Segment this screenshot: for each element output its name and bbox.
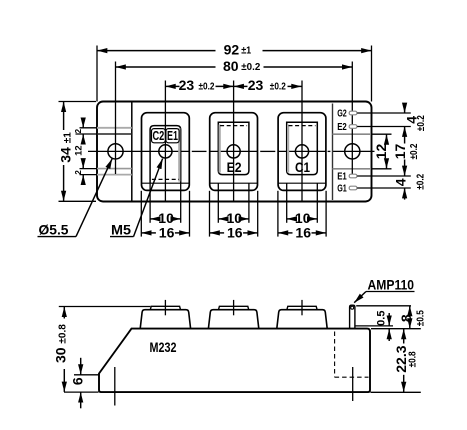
terminal boss 1 (side view) [140,310,190,329]
left hole centerline / extension [115,62,117,175]
right hole centerline / extension [351,62,353,175]
terminal 1 pad shade [178,128,180,182]
svg-text:12: 12 [373,144,389,160]
horizontal centerline [88,150,189,152]
dimension 34 ±1 (overall depth, left) [59,101,97,103]
terminal 1 screw hole [159,145,172,158]
terminal boss 3 (side view) [277,310,327,329]
svg-text:±0.2: ±0.2 [199,81,215,92]
left flange slot line (lower, dark) [97,168,132,170]
terminal 2 pad hidden edge (dashed) [220,125,247,127]
svg-text:22.3: 22.3 [393,345,409,372]
svg-text:16: 16 [159,224,175,240]
terminal 1 contact pad [150,126,181,184]
terminal 1 outer well [142,113,190,191]
left mounting hole centerline (side view) [114,367,116,406]
dimension 92 ±1 (overall width) [96,46,98,102]
boss 1 centerline [164,300,166,315]
dimension 4 ±0.2 (G2-E2 pitch) [404,104,406,113]
label box E1 [166,129,179,143]
separator extension upper [372,133,392,135]
dimension 17 ±0.2 (E2-E1 pitch) [404,127,406,144]
svg-text:80: 80 [223,58,239,74]
svg-text:23: 23 [179,77,195,93]
terminal 3 contact pad [287,122,318,174]
dimension 8 ±0.5 (tab height) [409,306,411,314]
pin G1 [349,186,357,190]
boss 3 centerline [301,300,303,315]
terminal 1 step line [142,182,190,184]
terminal 3 pad hidden edge (dashed) [289,125,316,127]
svg-text:±0.2: ±0.2 [241,62,260,73]
label box C2 [152,129,166,143]
svg-text:8: 8 [398,314,414,322]
svg-text:M5: M5 [111,221,131,237]
svg-text:±0.2: ±0.2 [270,81,286,92]
right end cap separator (upper) [333,133,372,135]
pin G2 [349,111,357,115]
left flange slot line (lower, light) [97,174,132,176]
terminal 1 vertical centerline [164,81,166,202]
svg-text:±0.8: ±0.8 [407,351,418,367]
terminal 2 contact pad [218,122,249,174]
right end cap left edge [332,104,334,201]
dimension 23 ±0.2 (terminal pitch, left) [165,85,179,87]
svg-text:17: 17 [392,144,408,160]
dimension 16 (well width, terminal 1) [140,191,142,237]
svg-text:E1: E1 [337,172,347,183]
svg-text:±1: ±1 [241,46,251,57]
svg-text:16: 16 [227,224,243,240]
svg-text:±0.2: ±0.2 [409,143,420,159]
extension lines right (side view) [356,305,411,307]
terminal 2 outer well [210,113,258,191]
svg-text:Ø5.5: Ø5.5 [39,221,69,237]
svg-text:E1: E1 [167,129,178,143]
svg-text:E2: E2 [337,122,347,133]
pin E1 [349,174,357,178]
separator extension lower [372,168,392,170]
svg-text:0.5: 0.5 [375,311,387,326]
svg-text:E2: E2 [227,159,242,175]
svg-text:6: 6 [69,377,85,385]
dimension 10 (pad width, terminal 1) [149,184,151,223]
hidden internal cavity (dashed) [334,332,336,378]
right end cap separator (lower) [333,168,372,170]
module body outline (side view) [99,329,370,393]
terminal 3 pad shade [287,125,289,173]
svg-text:2: 2 [74,170,83,175]
right mounting hole centerline (side view) [352,367,354,401]
tab hole [351,306,354,309]
dimension 23 ±0.2 (terminal pitch, right) [234,85,248,87]
svg-text:C1: C1 [295,159,310,175]
dimension 16 (well width, terminal 3) [277,191,279,237]
terminal 3 screw hole [295,145,308,158]
terminal 2 pad shade [219,125,221,173]
AMP110 tab pin (side view) [350,305,355,328]
right mounting hole [345,144,360,159]
svg-text:C2: C2 [153,129,165,143]
dimension chain 2 / 12 / 2 (flange slots) [80,127,97,129]
svg-text:2: 2 [74,128,83,133]
dimension 30 ±0.8 (overall height) [59,306,151,308]
svg-text:M232: M232 [150,339,177,355]
terminal 3 vertical centerline [301,81,303,202]
boss 2 centerline [233,300,235,315]
pin leader lines (right) [357,112,411,114]
left mounting hole [108,144,123,159]
svg-text:16: 16 [295,224,311,240]
svg-text:12: 12 [73,145,84,156]
svg-text:23: 23 [248,77,264,93]
terminal 2 vertical centerline [233,81,235,202]
module body outline (top view) [97,102,372,202]
terminal cap 3 (side view) [287,306,317,309]
svg-text:4: 4 [393,178,409,186]
dimension 0.5 (tab pedestal) [388,313,390,326]
dimension 12 (separator spacing) [386,134,388,144]
left flange slot line (upper, light) [97,127,132,129]
dimension 80 ±0.2 (hole spacing) [116,66,216,68]
svg-text:92: 92 [224,41,240,57]
svg-text:±0.2: ±0.2 [416,115,427,131]
terminal boss 2 (side view) [208,310,258,329]
svg-text:AMP110: AMP110 [368,276,415,292]
svg-text:G1: G1 [337,184,347,195]
terminal 2 step line [210,182,258,184]
svg-text:G2: G2 [337,109,347,120]
terminal 3 outer well [278,113,326,191]
pin E2 [349,125,357,129]
dimension 10 (pad width, terminal 2) [217,184,219,223]
dimension 6 (baseplate height) [74,374,99,376]
terminal cap 2 (side view) [219,306,249,309]
left flange right edge [131,102,133,202]
left flange slot line (upper, dark) [97,133,132,135]
terminal 3 step line [278,182,326,184]
terminal 2 screw hole [227,145,240,158]
terminal 1 pad hidden edge (dashed) [152,178,179,180]
dimension 10 (pad width, terminal 3) [286,184,288,223]
svg-text:±0.2: ±0.2 [415,173,426,189]
svg-text:±0.5: ±0.5 [416,310,427,326]
dimension 22.3 ±0.8 (body height) [403,329,405,344]
terminal cap 1 (side view) [150,306,180,309]
dimension 16 (well width, terminal 2) [209,191,211,237]
